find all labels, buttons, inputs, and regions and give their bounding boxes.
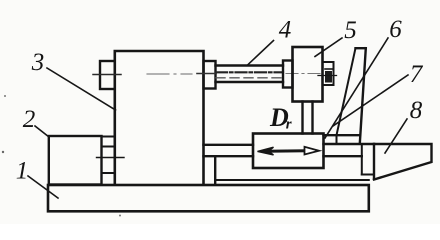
shaft 4 [216, 64, 284, 66]
double arrow Dr [258, 147, 320, 155]
svg-text:4: 4 [279, 17, 292, 44]
leader 1 [28, 176, 58, 198]
tailstock wedge 8 [374, 144, 432, 180]
leader 7 [333, 75, 408, 126]
leader 6 [325, 38, 388, 138]
scan noise specks [4, 95, 6, 97]
bolt column between box2 and box3 [102, 136, 115, 138]
coupling flange left of head 5 [283, 61, 293, 88]
svg-text:3: 3 [31, 49, 45, 76]
ways lines right of table [324, 134, 360, 136]
svg-text:2: 2 [23, 106, 36, 133]
column under plate [361, 145, 363, 175]
leader 4 [247, 41, 274, 66]
svg-text:Dr: Dr [269, 103, 292, 133]
svg-text:1: 1 [16, 158, 29, 185]
leader 2 [35, 126, 49, 137]
motor box 2 [49, 136, 102, 185]
headstock box 3 [115, 51, 204, 185]
svg-text:8: 8 [410, 97, 423, 124]
leader 5 [315, 38, 342, 57]
svg-text:7: 7 [410, 61, 424, 88]
grinding head block 5 [293, 47, 323, 102]
saddle line above base [215, 179, 369, 181]
leader 8 [385, 119, 407, 153]
leg under ways [214, 156, 216, 184]
svg-text:6: 6 [389, 16, 402, 43]
work table 7 (Dr box) [253, 134, 324, 169]
svg-text:5: 5 [344, 17, 357, 44]
bracket right of head 5 [323, 62, 334, 85]
right flange of headstock [204, 61, 216, 89]
spindle quill below head 5 [301, 102, 303, 134]
left flange of headstock [100, 61, 115, 89]
leader 3 [47, 68, 116, 110]
support plate 6 (wedge rib) [356, 47, 366, 49]
ways lines left of table [204, 144, 254, 146]
spindle centerline (dash-dot) [93, 74, 121, 76]
base bed 1 [48, 185, 369, 211]
